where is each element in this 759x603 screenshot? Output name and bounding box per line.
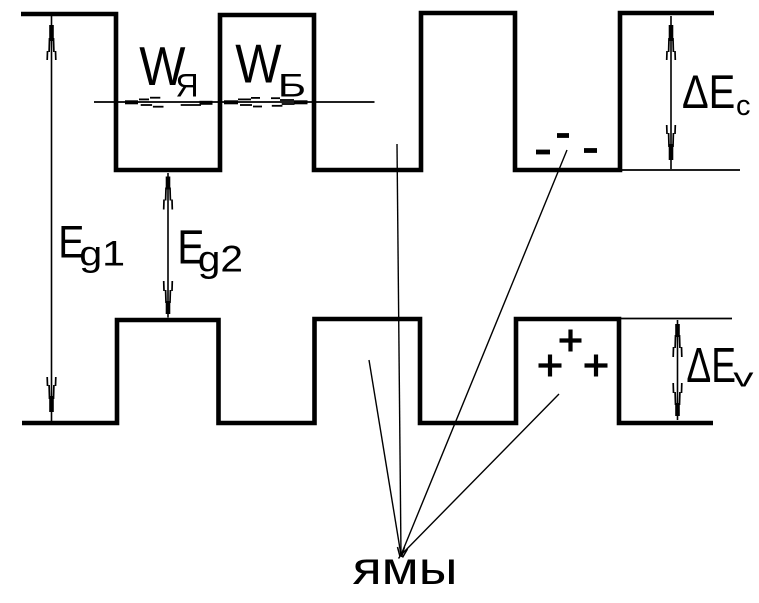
svg-text:ΔE: ΔE: [686, 338, 736, 393]
valence band edge: [22, 319, 713, 423]
svg-text:c: c: [736, 90, 751, 122]
svg-text:ямы: ямы: [353, 542, 458, 594]
wire pointer B to well: [397, 144, 401, 555]
node pointer arrowheads: [398, 547, 408, 559]
svg-text:Б: Б: [278, 69, 306, 104]
svg-text:W: W: [235, 34, 281, 95]
arrow Eg2: [164, 173, 173, 318]
svg-text:v: v: [733, 363, 754, 393]
svg-text:ΔE: ΔE: [682, 67, 735, 119]
svg-text:g1: g1: [79, 234, 125, 273]
wire pointer A to well: [369, 360, 401, 555]
wire pointer D to hole well: [401, 394, 559, 555]
wire pointer C to electron well: [401, 150, 567, 555]
conduction band edge: [21, 13, 714, 170]
node electrons (minus signs): [536, 136, 597, 153]
wire dE_v reference line: [619, 318, 732, 320]
arrow dEv: [673, 320, 682, 420]
arrow Eg1: [47, 16, 56, 421]
wire dE_c reference line: [620, 169, 740, 171]
svg-text:g2: g2: [198, 239, 243, 280]
wire W dimension line: [94, 101, 375, 103]
svg-text:Я: Я: [176, 67, 199, 103]
node holes (plus signs): [539, 330, 608, 377]
W dimension tick marks: [125, 98, 308, 107]
arrow dEc: [667, 16, 676, 169]
